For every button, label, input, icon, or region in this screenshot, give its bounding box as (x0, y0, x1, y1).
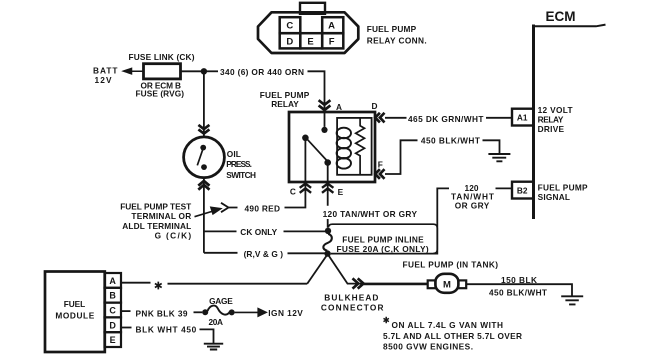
svg-text:120 TAN/WHT OR GRY: 120 TAN/WHT OR GRY (323, 209, 418, 219)
footnote text (383, 320, 522, 352)
label BATT 12V (93, 66, 118, 85)
gage fuse right dot (229, 309, 235, 315)
label FUEL PUMP RELAY (260, 90, 310, 109)
oil switch bottom contact (201, 164, 207, 170)
wire 465 to ECM A1 (486, 117, 512, 119)
connector cell D (280, 33, 301, 48)
svg-text:ALDL TERMINAL: ALDL TERMINAL (122, 221, 191, 231)
svg-text:MODULE: MODULE (55, 310, 94, 320)
ECM terminal A1 (512, 109, 533, 126)
arrow to BATT (124, 68, 144, 73)
wire diagonal to fuel module A (307, 256, 327, 284)
fuse link F1 (144, 64, 181, 79)
wire diagonal to bulkhead connector (329, 256, 364, 284)
svg-text:RELAY CONN.: RELAY CONN. (367, 36, 427, 46)
svg-text:150 BLK: 150 BLK (501, 275, 537, 285)
wire from terminal C (121, 310, 131, 312)
test terminal symbol (221, 203, 238, 212)
wire from terminal D (121, 327, 132, 329)
connector chevron above oil pressure switch (198, 125, 209, 134)
wire 490 RED to relay pin C (285, 182, 306, 208)
svg-text:DRIVE: DRIVE (538, 124, 565, 134)
relay pin C wire inside (304, 140, 306, 182)
relay pin A contact dot (321, 127, 327, 133)
svg-text:ON ALL 7.4L G VAN WITH: ON ALL 7.4L G VAN WITH (392, 320, 504, 330)
svg-text:TERMINAL OR: TERMINAL OR (131, 211, 191, 221)
bulkhead connector chevrons (353, 278, 364, 288)
gage fuse element (208, 306, 230, 315)
svg-text:D: D (372, 101, 378, 111)
svg-text:20A: 20A (209, 317, 224, 327)
connector chevron relay pin D (375, 113, 384, 123)
svg-text:FUSE LINK (CK): FUSE LINK (CK) (129, 52, 195, 62)
label FUEL PUMP RELAY CONN. (367, 24, 427, 46)
connector chevron above relay pin A (319, 100, 331, 110)
wire 340 ORN to relay pin A (308, 71, 325, 112)
svg-text:C: C (286, 21, 293, 32)
wire junction down to oil pressure switch (203, 71, 205, 137)
label 120 TAN/WHT OR GRY (3 lines) (451, 183, 494, 210)
label OR ECM B FUSE (RVG) (136, 80, 185, 98)
svg-text:A1: A1 (517, 113, 528, 123)
footnote asterisk (384, 317, 389, 323)
ECM top line (534, 25, 606, 27)
connector cell C (280, 17, 301, 33)
relay pin E wire below chevrons (327, 182, 329, 228)
ECM vertical line (532, 25, 535, 220)
oil pressure switch body (184, 137, 225, 178)
wire fuse junction to B2 (331, 188, 449, 253)
svg-text:FUEL PUMP TEST: FUEL PUMP TEST (120, 202, 191, 212)
svg-text:SIGNAL: SIGNAL (538, 192, 570, 202)
svg-text:BULKHEAD: BULKHEAD (324, 293, 378, 303)
svg-text:G (C/K): G (C/K) (155, 230, 192, 240)
svg-text:FUEL PUMP: FUEL PUMP (367, 24, 417, 34)
svg-text:A: A (109, 276, 116, 286)
wire relay F to ground (385, 140, 418, 174)
svg-text:FUSE (RVG): FUSE (RVG) (136, 89, 185, 99)
oil switch top contact (200, 145, 206, 151)
fuel pump relay connector body (258, 12, 358, 53)
wire CK ONLY left (204, 230, 237, 232)
svg-text:IGN 12V: IGN 12V (268, 308, 303, 318)
wire D to ground (200, 329, 214, 343)
svg-text:FUEL PUMP: FUEL PUMP (538, 182, 588, 192)
ECM terminal B2 (512, 182, 533, 199)
wire 340 ORN left stub (207, 70, 219, 72)
ground at fuel pump (561, 296, 583, 304)
wire A to bulkhead junction (168, 283, 308, 285)
connector cell A (322, 17, 343, 33)
relay switch left contact (302, 135, 309, 142)
fuel module terminal C (105, 303, 122, 318)
fuel pump relay box (289, 112, 375, 182)
svg-text:A: A (328, 21, 335, 32)
svg-text:465 DK GRN/WHT: 465 DK GRN/WHT (408, 114, 484, 124)
svg-text:(R,V & G ): (R,V & G ) (244, 249, 284, 259)
svg-text:FUEL PUMP INLINE: FUEL PUMP INLINE (342, 234, 424, 244)
label FUEL PUMP INLINE FUSE 20A (C,K ONLY) (337, 234, 429, 254)
node junction dot at inline fuse bottom (324, 250, 330, 256)
connector cell F (322, 33, 343, 48)
svg-text:C: C (290, 187, 296, 197)
fuel module terminal B (105, 288, 122, 303)
relay switch right contact (324, 159, 331, 166)
svg-text:450 BLK/WHT: 450 BLK/WHT (421, 135, 480, 145)
svg-text:CK ONLY: CK ONLY (240, 227, 277, 237)
connector cell E (300, 33, 322, 48)
ground below gage fuse (204, 344, 223, 350)
svg-text:M: M (443, 279, 451, 290)
arrow from label to test terminal (195, 207, 221, 216)
wire 450 to ground stem (483, 140, 500, 154)
ground near A1 (488, 154, 510, 161)
svg-text:450 BLK/WHT: 450 BLK/WHT (489, 288, 547, 298)
svg-text:F: F (378, 159, 383, 169)
label FUEL MODULE (55, 299, 94, 320)
connector chevron below oil pressure switch (198, 181, 209, 190)
svg-text:RELAY: RELAY (538, 115, 564, 125)
oil switch blade (197, 149, 203, 165)
relay pin E wire inside (327, 164, 329, 182)
svg-text:OR GRY: OR GRY (455, 200, 490, 210)
svg-text:5.7L AND ALL OTHER 5.7L OVER: 5.7L AND ALL OTHER 5.7L OVER (383, 331, 522, 341)
relay coil (337, 128, 351, 169)
svg-text:E: E (307, 37, 313, 48)
svg-text:RELAY: RELAY (271, 99, 299, 109)
svg-text:B: B (109, 291, 116, 301)
svg-text:340 (6) OR 440 ORN: 340 (6) OR 440 ORN (220, 67, 304, 77)
svg-text:CONNECTOR: CONNECTOR (321, 303, 384, 313)
svg-text:SWITCH: SWITCH (226, 170, 256, 180)
gage fuse left dot (202, 309, 208, 315)
node junction dot at inline fuse top (325, 228, 331, 234)
wire (R,V &amp; G) right to fuse junction (288, 252, 326, 254)
wire to gage fuse (194, 311, 203, 313)
connector chevron relay pin E (322, 184, 333, 193)
relay resistor (356, 118, 365, 175)
svg-text:PRESS.: PRESS. (226, 159, 252, 169)
label FUEL PUMP TEST TERMINAL OR ALDL TERMINAL G (C/K) (120, 202, 191, 241)
label FUEL PUMP SIGNAL (538, 182, 588, 202)
fuel pump relay connector tab (300, 3, 325, 14)
fuel module box (45, 272, 105, 353)
svg-text:D: D (286, 37, 293, 48)
fuel pump motor left terminal (428, 280, 436, 288)
svg-text:ECM: ECM (546, 9, 576, 24)
fuel module terminal A (105, 273, 122, 288)
svg-text:OIL: OIL (227, 149, 241, 159)
node junction dot at fuse output (201, 68, 207, 74)
connector chevron relay pin C (300, 184, 311, 193)
connector chevron relay pin F (375, 169, 384, 179)
relay switch blade (308, 140, 327, 161)
wire oil switch down to branches (203, 178, 205, 253)
svg-text:D: D (109, 320, 116, 330)
wire fuse to junction (181, 70, 204, 72)
svg-text:12V: 12V (95, 75, 112, 85)
svg-text:B2: B2 (517, 186, 528, 196)
wire (R,V &amp; G) left (204, 252, 238, 254)
svg-text:C: C (109, 306, 116, 316)
fuel module terminal E (105, 332, 122, 347)
wire CK ONLY right to E junction (284, 230, 327, 232)
label OIL PRESS. SWITCH (226, 149, 256, 180)
svg-text:FUEL: FUEL (64, 299, 85, 309)
relay coil inner box (337, 118, 372, 175)
svg-text:E: E (110, 335, 116, 345)
label 12 VOLT RELAY DRIVE (538, 105, 573, 134)
svg-text:GAGE: GAGE (209, 296, 233, 306)
wire 465 DK GRN/WHT left stub (385, 117, 407, 119)
fuel module terminal D (105, 317, 122, 332)
wire pump to ground (466, 284, 572, 296)
asterisk node on wire A (155, 282, 162, 290)
svg-text:8500 GVW ENGINES.: 8500 GVW ENGINES. (383, 342, 473, 352)
label box FUEL PUMP INLINE FUSE 20A (329, 224, 438, 253)
wire from terminal A (121, 282, 151, 284)
fuel pump motor M1 (435, 274, 458, 293)
wire bulkhead to pump (364, 283, 428, 286)
svg-text:490 RED: 490 RED (245, 203, 281, 213)
arrow to IGN 12V (235, 309, 266, 316)
fuel pump motor right terminal (458, 280, 466, 288)
svg-text:F: F (329, 37, 335, 48)
fuel pump inline fuse squiggle (323, 234, 331, 251)
svg-text:FUSE 20A (C,K ONLY): FUSE 20A (C,K ONLY) (337, 244, 429, 254)
svg-text:PNK BLK 39: PNK BLK 39 (136, 308, 188, 318)
svg-text:BLK WHT 450: BLK WHT 450 (136, 325, 197, 335)
relay pin A wire inside (324, 112, 326, 127)
svg-text:FUEL PUMP (IN TANK): FUEL PUMP (IN TANK) (403, 260, 499, 270)
svg-text:12 VOLT: 12 VOLT (538, 105, 573, 115)
label BULKHEAD CONNECTOR (321, 293, 384, 313)
svg-text:E: E (338, 187, 344, 197)
wire B2 stub (496, 187, 513, 189)
